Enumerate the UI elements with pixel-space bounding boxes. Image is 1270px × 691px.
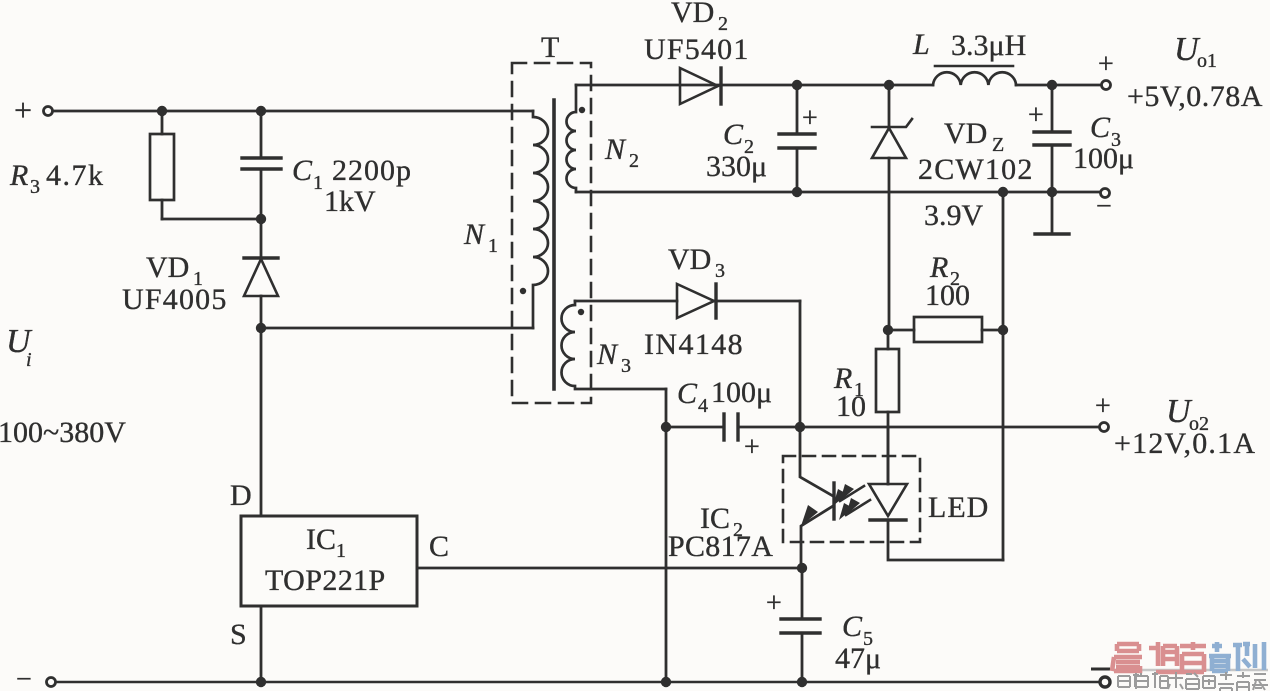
wire bottom rail <box>56 681 1099 684</box>
winding N3 <box>562 301 667 389</box>
node N3 bottom rail <box>661 677 671 687</box>
node S bottom <box>256 677 266 687</box>
terminal 5V return <box>1101 189 1110 198</box>
node C3 bottom <box>1047 187 1057 197</box>
wire top input rail <box>53 110 533 113</box>
op IC1 TOP221P box <box>241 516 417 606</box>
wire R2 right vertical <box>1002 192 1005 560</box>
svg-text:o1: o1 <box>1197 50 1217 72</box>
node C2 bottom <box>792 187 802 197</box>
svg-text:4: 4 <box>698 395 708 417</box>
light arrow 1 <box>840 486 864 501</box>
svg-text:−: − <box>1096 191 1112 222</box>
resistor R2 <box>888 329 914 332</box>
capacitor C5 <box>801 568 804 619</box>
wire L to +5V terminal <box>1016 84 1101 87</box>
phototransistor base bar <box>832 483 835 519</box>
watermark big characters <box>1112 642 1264 672</box>
svg-text:C: C <box>292 154 313 187</box>
svg-text:VD: VD <box>146 251 189 284</box>
svg-text:PC817A: PC817A <box>668 530 773 563</box>
N2 phase dot <box>579 107 585 113</box>
node C4 right <box>795 422 805 432</box>
svg-text:TOP221P: TOP221P <box>265 564 386 597</box>
svg-text:VD: VD <box>944 117 987 150</box>
svg-text:3.3μH: 3.3μH <box>951 29 1026 62</box>
svg-text:i: i <box>26 349 32 371</box>
wire S pin <box>260 606 263 682</box>
terminal +12V <box>1100 423 1109 432</box>
capacitor C4 <box>666 426 724 429</box>
svg-text:+: + <box>14 92 32 128</box>
input + terminal <box>44 107 53 116</box>
node VD1 bottom <box>256 323 266 333</box>
svg-text:3: 3 <box>30 176 40 198</box>
input - terminal <box>47 678 56 687</box>
node C1 top <box>256 106 266 116</box>
svg-text:T: T <box>541 31 559 64</box>
svg-text:C: C <box>723 118 744 151</box>
watermark small characters <box>1118 672 1268 691</box>
svg-text:1: 1 <box>336 540 346 562</box>
label bottom right minus <box>1091 668 1110 671</box>
diode VD3 <box>575 300 677 303</box>
svg-text:100μ: 100μ <box>711 376 772 409</box>
svg-text:2CW102: 2CW102 <box>918 153 1034 186</box>
svg-text:IC: IC <box>306 523 336 556</box>
phototransistor emitter <box>801 506 833 568</box>
svg-text:VD: VD <box>671 0 714 29</box>
wire Uo2 <box>738 426 1099 429</box>
node R2 right rail <box>998 187 1008 197</box>
node C3 top <box>1047 80 1057 90</box>
node zener R1 R2 <box>883 325 893 335</box>
capacitor C1 <box>260 111 263 158</box>
wire VD3 to node <box>799 301 802 427</box>
node C5 top <box>797 563 807 573</box>
svg-text:VD: VD <box>668 243 711 276</box>
svg-text:LED: LED <box>928 491 989 524</box>
svg-text:UF5401: UF5401 <box>644 33 750 66</box>
svg-text:1: 1 <box>488 235 498 257</box>
svg-text:3: 3 <box>715 260 725 282</box>
svg-text:R: R <box>9 159 28 192</box>
wire 5V return rail <box>576 191 1100 194</box>
svg-text:4.7k: 4.7k <box>46 159 105 192</box>
svg-text:+5V,0.78A: +5V,0.78A <box>1127 80 1263 113</box>
inductor L <box>935 65 1013 68</box>
LED in IC2 <box>887 427 890 484</box>
svg-text:+12V,0.1A: +12V,0.1A <box>1114 427 1256 460</box>
node R3 top <box>157 106 167 116</box>
wire D pin <box>260 328 263 516</box>
terminal bottom right <box>1100 677 1110 687</box>
diode VD2 <box>680 68 718 104</box>
transformer core <box>552 100 556 389</box>
svg-text:C: C <box>1090 111 1111 144</box>
svg-text:+: + <box>802 103 818 134</box>
wire C pin <box>417 567 802 570</box>
terminal +5V <box>1102 81 1111 90</box>
wire VD1 bottom to N1 bottom <box>261 327 533 330</box>
optocoupler IC2 dashed box <box>783 456 920 542</box>
svg-text:1kV: 1kV <box>324 185 376 218</box>
svg-text:100μ: 100μ <box>1073 142 1134 175</box>
svg-text:UF4005: UF4005 <box>122 283 228 316</box>
svg-text:3: 3 <box>621 355 631 377</box>
svg-text:C: C <box>842 610 863 643</box>
transformer T dashed box <box>512 63 591 403</box>
winding N1 <box>533 111 548 328</box>
svg-text:S: S <box>230 618 247 651</box>
wire R3 bottom to C1 bottom <box>162 218 261 221</box>
winding N2 <box>567 85 577 192</box>
node C2 top <box>792 80 802 90</box>
svg-text:N: N <box>596 338 619 371</box>
svg-text:1: 1 <box>313 172 323 194</box>
svg-text:2: 2 <box>629 150 639 172</box>
node C5 bottom <box>797 677 807 687</box>
capacitor C2 <box>796 85 799 134</box>
ground <box>1051 192 1054 234</box>
svg-text:47μ: 47μ <box>835 642 881 675</box>
svg-text:N: N <box>463 218 486 251</box>
svg-text:−: − <box>16 664 32 691</box>
svg-text:2: 2 <box>718 13 728 35</box>
svg-text:N: N <box>604 133 627 166</box>
svg-text:+: + <box>1098 49 1114 80</box>
svg-text:+: + <box>744 432 760 463</box>
diode VD1 <box>260 219 263 258</box>
phototransistor collector <box>800 427 833 496</box>
svg-text:+: + <box>1028 100 1044 131</box>
N1 phase dot <box>520 288 526 294</box>
svg-text:2200p: 2200p <box>332 154 412 187</box>
wire N3 bottom vertical <box>665 389 668 682</box>
zener VDZ <box>888 85 891 127</box>
svg-text:C: C <box>429 530 449 563</box>
resistor R3 <box>161 111 164 134</box>
N3 phase dot <box>578 309 584 315</box>
wire N2 top to VD2 and on <box>576 84 933 87</box>
svg-text:C: C <box>677 377 698 410</box>
node R2 right <box>998 325 1008 335</box>
svg-text:D: D <box>230 479 252 512</box>
svg-text:10: 10 <box>836 390 866 423</box>
svg-text:100~380V: 100~380V <box>0 416 126 449</box>
svg-text:+: + <box>1095 391 1111 422</box>
svg-text:IN4148: IN4148 <box>644 328 744 361</box>
svg-text:L: L <box>912 28 930 61</box>
svg-text:330μ: 330μ <box>706 150 767 183</box>
node VDZ top <box>884 80 894 90</box>
capacitor C3 <box>1051 85 1054 132</box>
node C1 bottom <box>256 214 266 224</box>
svg-text:+: + <box>766 588 782 619</box>
resistor R1 <box>887 330 890 349</box>
svg-text:3.9V: 3.9V <box>924 199 984 232</box>
light arrow 2 <box>846 500 870 515</box>
node C4 left <box>661 422 671 432</box>
svg-text:100: 100 <box>925 279 970 312</box>
watermark underline <box>1113 669 1268 672</box>
